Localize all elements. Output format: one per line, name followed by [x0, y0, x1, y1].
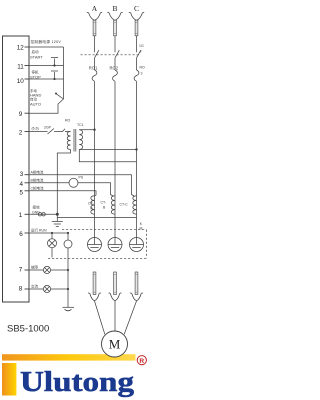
- pin numbers: [17, 45, 25, 293]
- node relay junction: [67, 232, 69, 234]
- svg-text:(6,6): (6,6): [32, 127, 39, 131]
- svg-text:6: 6: [19, 231, 23, 238]
- svg-text:A相电流: A相电流: [31, 170, 44, 175]
- motor M: [102, 331, 128, 357]
- switch 2GP blade: [48, 129, 55, 135]
- sensor PS: [69, 178, 78, 187]
- svg-text:RO: RO: [140, 66, 146, 70]
- svg-text:接地: 接地: [33, 205, 40, 210]
- svg-text:启动: 启动: [32, 49, 39, 54]
- wire TC1 secondary bottom to bus: [79, 150, 136, 162]
- svg-text:7: 7: [19, 267, 23, 274]
- svg-text:TC1: TC1: [77, 123, 84, 127]
- svg-text:9: 9: [19, 111, 23, 118]
- relay K coil: [64, 233, 72, 307]
- svg-text:START: START: [30, 55, 43, 60]
- wire pin6: [29, 232, 68, 234]
- wire pin5 to CT-A: [29, 191, 96, 196]
- svg-text:3: 3: [20, 171, 24, 178]
- pin ticks: [25, 47, 30, 289]
- lamp AC: [43, 285, 50, 292]
- CT B coil: [111, 196, 115, 214]
- SCR A: [88, 238, 102, 252]
- disconnect linkage dashed: [81, 54, 140, 56]
- svg-text:控制器电源 120V: 控制器电源 120V: [31, 39, 62, 44]
- svg-text:B: B: [112, 4, 117, 13]
- wire pin4 to CT-B: [29, 183, 113, 196]
- svg-text:故障: 故障: [31, 265, 38, 270]
- svg-text:4: 4: [19, 181, 23, 188]
- svg-text:GND: GND: [32, 210, 40, 214]
- pushbutton STOP: [29, 71, 64, 79]
- svg-text:2: 2: [19, 130, 23, 137]
- node TC1/A junction: [93, 129, 95, 131]
- CT C coil: [133, 196, 137, 214]
- svg-text:B相电流: B相电流: [31, 178, 44, 183]
- svg-text:CT-: CT-: [101, 201, 107, 205]
- svg-text:RO: RO: [65, 119, 71, 123]
- svg-text:10: 10: [17, 78, 25, 85]
- wire pin7: [29, 269, 68, 271]
- svg-text:1: 1: [19, 212, 23, 219]
- controller terminal box U1: [3, 36, 30, 302]
- selector switch blade: [56, 94, 63, 99]
- SCR C: [130, 238, 144, 252]
- wire TC1 primary bottom left: [57, 150, 70, 215]
- wire TC1 secondary top to phase A: [79, 129, 94, 131]
- wire pin3 to CT-C: [29, 175, 134, 196]
- wire CT common bus: [57, 216, 136, 218]
- output fuse C: [124, 272, 143, 334]
- svg-text:运行 RUN: 运行 RUN: [31, 227, 47, 232]
- svg-text:Ulutong: Ulutong: [20, 367, 134, 398]
- svg-text:C: C: [134, 4, 139, 13]
- svg-text:A: A: [92, 4, 98, 13]
- lamp RUN: [48, 233, 57, 258]
- svg-text:CT-: CT-: [88, 202, 94, 206]
- CT A coil: [91, 196, 95, 214]
- svg-text:R: R: [139, 358, 144, 365]
- svg-text:1G: 1G: [139, 44, 144, 48]
- phase B input: [107, 4, 122, 238]
- wire pin12 rail: [29, 46, 64, 48]
- svg-text:3: 3: [141, 72, 143, 76]
- svg-text:AUTO: AUTO: [30, 101, 41, 106]
- svg-text:CT-C: CT-C: [120, 203, 129, 207]
- lamp fault: [43, 266, 50, 273]
- wire pin8: [29, 288, 68, 290]
- node lamp run junction: [51, 232, 53, 234]
- svg-text:11: 11: [17, 64, 24, 71]
- output fuse A: [88, 272, 105, 334]
- svg-text:F: F: [140, 50, 142, 54]
- svg-text:12: 12: [17, 45, 25, 52]
- wire pin2: [29, 131, 48, 133]
- svg-text:M: M: [140, 226, 143, 230]
- svg-text:RO1: RO1: [89, 65, 98, 70]
- svg-text:M: M: [109, 337, 121, 352]
- svg-text:SB5-1000: SB5-1000: [7, 324, 49, 335]
- SCR B: [108, 238, 122, 252]
- ground symbol: [52, 214, 63, 226]
- dashed bypass box: [48, 230, 147, 259]
- node link/C junction: [135, 148, 137, 150]
- logo block: [2, 363, 16, 396]
- svg-text:HAND: HAND: [30, 92, 41, 97]
- svg-text:8: 8: [19, 286, 23, 293]
- wire 2GP to RO contact: [54, 131, 60, 133]
- svg-text:交流: 交流: [31, 284, 38, 289]
- svg-text:C相电流: C相电流: [31, 186, 45, 191]
- svg-text:RO2: RO2: [110, 65, 119, 70]
- node ground junction: [56, 213, 59, 216]
- wire right rail: [29, 47, 64, 113]
- registered mark: [137, 356, 146, 365]
- wire pin1 ground row: [29, 213, 57, 215]
- node pin7/relay: [67, 269, 69, 271]
- link component on gnd wire: [38, 213, 41, 216]
- svg-text:2GP: 2GP: [44, 125, 52, 129]
- pushbutton START: [29, 58, 64, 66]
- phase A input: [87, 4, 102, 238]
- output fuse B: [109, 272, 122, 331]
- svg-text:5: 5: [19, 189, 23, 196]
- node pin8/relay: [67, 288, 69, 290]
- phase C input: [129, 4, 144, 238]
- chassis ground: [63, 307, 75, 311]
- svg-text:PS: PS: [79, 176, 84, 180]
- wire phase A to C link: [79, 149, 136, 151]
- svg-text:STOP: STOP: [30, 74, 41, 79]
